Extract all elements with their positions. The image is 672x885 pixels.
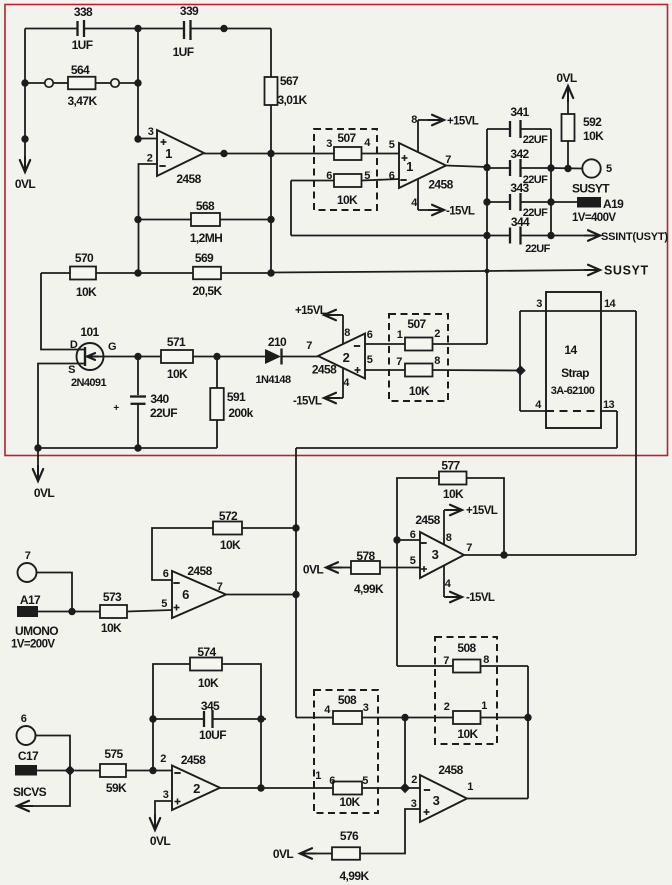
label 59K	[106, 781, 127, 795]
svg-text:571: 571	[167, 335, 186, 349]
svg-text:-15VL: -15VL	[466, 592, 495, 604]
resistor R507b2	[405, 364, 433, 377]
junction strap left	[515, 365, 525, 375]
label SSINT(USYT)	[601, 231, 668, 243]
svg-text:2458: 2458	[438, 763, 463, 777]
junction C17	[65, 765, 75, 775]
svg-text:4,99K: 4,99K	[339, 869, 369, 883]
junction pin3 node	[134, 135, 141, 142]
svg-text:3: 3	[433, 793, 440, 808]
label 570	[75, 251, 94, 265]
label 6 U2	[367, 329, 373, 341]
svg-text:342: 342	[510, 147, 529, 161]
label 101	[80, 325, 99, 339]
svg-text:1: 1	[481, 700, 487, 712]
op-amp U1b triangle	[399, 143, 446, 188]
svg-text:1,2MH: 1,2MH	[190, 231, 222, 245]
svg-text:14: 14	[604, 298, 617, 310]
label SICVS	[13, 785, 47, 799]
wire v271	[270, 154, 272, 274]
label pin 5	[362, 775, 368, 787]
label pin 2	[434, 328, 440, 340]
svg-text:SSINT(USYT): SSINT(USYT)	[601, 231, 668, 243]
svg-text:573: 573	[103, 590, 122, 604]
capacitor C343	[487, 193, 551, 211]
label pin 7	[396, 356, 402, 368]
label 14 strap	[604, 298, 617, 310]
wire U6 pin2 row	[126, 770, 172, 772]
diode D210	[265, 349, 282, 365]
label 340	[150, 392, 169, 406]
connector 6	[17, 726, 36, 745]
svg-text:7: 7	[306, 340, 312, 352]
svg-text:5: 5	[389, 139, 395, 151]
power +15VL U1b	[418, 115, 479, 152]
resistor R569	[193, 267, 221, 280]
svg-text:-15VL: -15VL	[293, 396, 322, 408]
svg-text:0VL: 0VL	[303, 563, 323, 577]
svg-text:564: 564	[71, 63, 90, 77]
junction A17	[68, 608, 75, 615]
svg-text:10K: 10K	[583, 129, 604, 143]
junction 345 left	[149, 715, 156, 722]
svg-text:3: 3	[148, 126, 154, 138]
label + U6	[175, 799, 181, 805]
svg-text:10K: 10K	[101, 621, 122, 635]
svg-text:C17: C17	[18, 749, 39, 763]
svg-text:6: 6	[367, 329, 373, 341]
label 10K	[583, 129, 604, 143]
label 1V=200V	[11, 639, 55, 651]
label 592	[583, 115, 602, 129]
svg-text:1: 1	[467, 781, 473, 793]
junction gate-cap340	[134, 353, 141, 360]
connector 5 SUSYT	[582, 159, 600, 177]
svg-text:1UF: 1UF	[72, 38, 93, 52]
wire strap left v	[519, 311, 521, 411]
net arrow SICVS	[17, 771, 70, 812]
label pin 8	[483, 654, 489, 666]
label pin 4	[324, 704, 331, 716]
junction 569 left	[134, 269, 141, 276]
svg-text:10K: 10K	[443, 487, 464, 501]
svg-text:6: 6	[410, 529, 416, 541]
svg-text:1: 1	[315, 770, 321, 782]
svg-text:1N4148: 1N4148	[256, 374, 291, 386]
junction U4 out	[292, 591, 299, 598]
svg-text:8: 8	[483, 654, 489, 666]
junction left rail A	[21, 79, 28, 86]
resistor R572	[213, 522, 242, 535]
label - U1a	[159, 165, 165, 167]
label 5 U2	[367, 354, 373, 366]
svg-text:D: D	[70, 339, 78, 351]
label 3 inside U5	[433, 793, 440, 808]
strap block body	[546, 292, 601, 428]
label 2458 U1a	[176, 172, 201, 186]
op-amp U6 triangle	[172, 766, 220, 811]
junction gnd rail A	[34, 444, 41, 451]
wire v138	[137, 29, 139, 140]
svg-text:6: 6	[163, 568, 169, 580]
label - U6	[174, 772, 180, 774]
svg-text:8: 8	[446, 532, 452, 544]
label 10K	[339, 795, 360, 809]
svg-text:7: 7	[25, 550, 31, 562]
capacitor C341	[487, 120, 551, 138]
label D	[70, 339, 78, 351]
svg-text:576: 576	[340, 829, 359, 843]
label pin 2	[444, 701, 450, 713]
power 0VL up arrow	[563, 86, 573, 102]
label 20,5K	[192, 284, 222, 298]
svg-text:343: 343	[510, 181, 529, 195]
label SUSYT	[604, 264, 649, 278]
label 22UF	[150, 406, 177, 420]
label 0VL	[303, 563, 323, 577]
svg-text:5: 5	[367, 354, 373, 366]
label 7 U2	[306, 340, 312, 352]
net stub A17	[17, 606, 72, 617]
dashed block 507b	[389, 314, 448, 401]
op-amp U3 triangle	[420, 532, 464, 578]
wire U2 pin6 row	[365, 343, 487, 345]
svg-text:5: 5	[606, 163, 612, 175]
label plus C340	[113, 403, 119, 414]
wire v296 bus	[295, 448, 297, 718]
svg-text:6: 6	[389, 170, 395, 182]
label + U1a	[161, 139, 167, 145]
junction top rail A	[134, 25, 141, 32]
svg-text:10K: 10K	[339, 795, 360, 809]
svg-text:7: 7	[443, 655, 449, 667]
label 2 U5	[411, 774, 417, 786]
label UMONO	[15, 624, 58, 638]
label 3,47K	[67, 94, 97, 108]
capacitor C338	[78, 20, 85, 37]
wire 568 row	[138, 219, 271, 221]
junction 487 c343	[483, 198, 490, 205]
svg-text:SICVS: SICVS	[13, 785, 47, 799]
wire U3 pin6 row	[397, 539, 420, 541]
svg-text:7: 7	[466, 542, 472, 554]
resistor R576	[332, 847, 360, 860]
label 3 strap	[536, 298, 542, 310]
label 1N4148	[256, 374, 291, 386]
label 2458 U5	[438, 763, 463, 777]
op-amp U2 triangle	[318, 334, 365, 379]
label pin 1	[397, 329, 403, 341]
svg-text:577: 577	[441, 459, 460, 473]
junction 568 right	[267, 216, 274, 223]
svg-text:3: 3	[536, 298, 542, 310]
svg-text:+15VL: +15VL	[447, 116, 479, 128]
wire v528	[527, 666, 529, 799]
svg-text:5: 5	[410, 555, 416, 567]
label 2458 U6	[181, 753, 206, 767]
label 6 U4	[163, 568, 169, 580]
svg-text:22UF: 22UF	[525, 243, 550, 255]
junction U3 pin6	[393, 536, 400, 543]
svg-text:1: 1	[406, 159, 413, 174]
wire v405 inv	[404, 718, 406, 789]
junction susyt x487	[485, 269, 490, 274]
net arrow 0VL 576	[300, 848, 316, 858]
op-amp U5 triangle	[420, 775, 467, 822]
label 10K	[337, 193, 358, 207]
junction 487 out	[483, 164, 490, 171]
label 22UF	[525, 243, 550, 255]
wire 578 row	[336, 567, 420, 569]
resistor R568	[191, 213, 220, 226]
svg-text:2458: 2458	[176, 172, 201, 186]
wire R591 drop	[216, 357, 218, 389]
label 343	[510, 181, 529, 195]
net stub A19	[577, 197, 601, 208]
svg-text:1: 1	[165, 146, 172, 161]
svg-text:2458: 2458	[312, 363, 337, 377]
wire 564 row	[25, 82, 138, 84]
svg-text:575: 575	[104, 747, 123, 761]
svg-text:10UF: 10UF	[199, 728, 226, 742]
wire left rail	[24, 29, 26, 161]
label 7 U4	[217, 581, 223, 593]
dashed block 508a	[314, 690, 378, 813]
wire conn7 to node	[37, 573, 73, 612]
svg-text:340: 340	[150, 392, 169, 406]
label 571	[167, 335, 186, 349]
wire R567 drop	[270, 29, 272, 78]
wire gate row	[104, 356, 266, 358]
label - U3	[420, 542, 426, 544]
label 3 U5	[411, 798, 417, 810]
label 8 U3	[446, 532, 452, 544]
label 0VL	[15, 177, 35, 191]
label 4,99K	[354, 582, 384, 596]
label 1 U1b	[406, 159, 413, 174]
label 22UF	[523, 207, 548, 219]
svg-text:1: 1	[397, 329, 403, 341]
connector 7	[18, 563, 37, 582]
label 573	[103, 590, 122, 604]
label + U2	[355, 367, 361, 373]
label SUSYT	[572, 182, 610, 196]
label 10K	[167, 367, 188, 381]
label 2458 U2	[312, 363, 337, 377]
svg-text:2458: 2458	[428, 178, 453, 192]
svg-text:S: S	[68, 364, 75, 376]
capacitor C344	[487, 227, 551, 245]
junction left rail B	[21, 135, 28, 142]
dashed block 507a	[314, 129, 377, 210]
label 577	[441, 459, 460, 473]
label pin 1	[481, 700, 487, 712]
wire U5 out	[467, 798, 528, 800]
label 2 inside U6	[193, 781, 200, 796]
wire SSINT row	[291, 235, 588, 237]
svg-text:10K: 10K	[220, 538, 241, 552]
label 1UF	[72, 38, 93, 52]
svg-text:339: 339	[180, 4, 199, 18]
svg-text:3: 3	[363, 702, 369, 714]
label pin 6	[329, 775, 335, 787]
svg-text:0VL: 0VL	[34, 486, 54, 500]
junction U3 out	[500, 551, 507, 558]
net stub C17	[15, 765, 70, 776]
label 7	[25, 550, 31, 562]
resistor R508b2	[453, 711, 481, 724]
svg-text:591: 591	[227, 390, 246, 404]
svg-text:572: 572	[219, 509, 238, 523]
transistor Q101 drain lead	[78, 349, 85, 351]
svg-text:5: 5	[161, 598, 167, 610]
transistor Q101 body	[77, 343, 104, 370]
terminal ring 564 left	[45, 79, 53, 87]
label 3 inside U3	[432, 547, 439, 562]
label 2N4091	[71, 377, 106, 389]
label 210	[268, 335, 287, 349]
label 575	[104, 747, 123, 761]
label 13 strap	[603, 399, 615, 411]
svg-text:567: 567	[280, 74, 299, 88]
svg-text:-15VL: -15VL	[446, 206, 475, 218]
label 10K	[220, 538, 241, 552]
svg-text:10K: 10K	[198, 676, 219, 690]
label pin 2	[147, 153, 153, 165]
ground 0VL top-left arrow	[20, 156, 30, 172]
resistor R575	[100, 764, 126, 777]
svg-text:338: 338	[74, 5, 93, 19]
junction top rail B	[220, 25, 227, 32]
wire U1b pin6 row	[291, 179, 399, 181]
resistor R578	[351, 561, 380, 574]
label 2458 U3	[415, 513, 440, 527]
wire 574 loop	[153, 664, 261, 788]
wire R591 bottom	[216, 420, 218, 448]
svg-text:2458: 2458	[181, 753, 206, 767]
label 8 U2	[344, 327, 350, 339]
label 345	[201, 699, 220, 713]
junction 551 c342	[547, 164, 554, 171]
svg-text:570: 570	[75, 251, 94, 265]
label 4 U1b	[411, 197, 418, 209]
svg-text:2: 2	[193, 781, 200, 796]
label - U2	[354, 345, 360, 347]
label 578	[356, 549, 375, 563]
label 200k	[228, 406, 253, 420]
svg-text:0VL: 0VL	[150, 834, 170, 848]
label 10K	[76, 285, 97, 299]
svg-text:568: 568	[196, 199, 215, 213]
label + U1b	[402, 155, 408, 161]
net arrow 0VL 578	[326, 562, 342, 572]
label 3A-62100	[551, 385, 595, 397]
wire strap right v	[635, 311, 637, 555]
label 10K	[198, 676, 219, 690]
red highlight frame	[5, 5, 668, 456]
wire A19 row	[551, 201, 577, 203]
label G	[108, 341, 116, 353]
terminal ring 564 right	[111, 79, 119, 87]
svg-text:8: 8	[344, 327, 350, 339]
label 6 U3	[410, 529, 416, 541]
label 574	[197, 645, 216, 659]
svg-text:1V=400V: 1V=400V	[572, 212, 616, 224]
wire U2 pin5 row	[365, 369, 520, 372]
svg-text:8: 8	[411, 114, 417, 126]
label 2458 U1b	[428, 178, 453, 192]
label A19	[603, 197, 624, 211]
svg-text:7: 7	[217, 581, 223, 593]
resistor R508b1	[453, 660, 481, 673]
label 344	[511, 215, 530, 229]
power -15VL U3	[444, 566, 495, 605]
wire U5 pin3 loop	[316, 809, 420, 854]
label 4,99K	[339, 869, 369, 883]
label 4 U3	[445, 578, 452, 590]
wire drain drop	[41, 273, 78, 350]
label 5 U1b	[389, 139, 395, 151]
resistor R571	[161, 350, 193, 363]
wire U4 out	[226, 594, 296, 596]
resistor R567	[265, 77, 278, 105]
ground 0VL arrow bottom-left	[33, 448, 43, 481]
junction 592	[564, 165, 571, 172]
transistor Q101 channel	[84, 347, 86, 366]
svg-text:4,99K: 4,99K	[354, 582, 384, 596]
wire v397 to 508b	[396, 540, 398, 666]
junction 571-591	[213, 353, 220, 360]
label 1 U1a	[165, 146, 172, 161]
label + U3	[421, 566, 427, 572]
label A17	[20, 593, 41, 607]
wire diode to U1b	[282, 356, 318, 358]
svg-text:10K: 10K	[167, 367, 188, 381]
label 10UF	[199, 728, 226, 742]
svg-text:3,47K: 3,47K	[67, 94, 97, 108]
label 10K	[409, 384, 430, 398]
label 10K	[443, 487, 464, 501]
label 3,01K	[277, 93, 307, 107]
op-amp U1a triangle	[157, 130, 204, 176]
svg-text:6: 6	[182, 587, 189, 602]
junction 551 c344	[547, 232, 554, 239]
label 10K	[457, 727, 478, 741]
svg-text:5: 5	[362, 775, 368, 787]
junction 568 left	[134, 216, 141, 223]
label 10K	[101, 621, 122, 635]
svg-text:507: 507	[337, 131, 356, 145]
wire C17 to R575	[75, 770, 100, 772]
transistor Q101 gate	[87, 353, 104, 360]
svg-text:578: 578	[356, 549, 375, 563]
junction 569 right	[267, 269, 274, 276]
junction U5 pin2	[400, 783, 410, 793]
svg-text:2: 2	[160, 753, 166, 765]
svg-text:2: 2	[434, 328, 440, 340]
label - U5	[424, 789, 430, 791]
svg-text:+15VL: +15VL	[466, 505, 498, 517]
wire SUSYT out row	[551, 167, 582, 170]
wire ground rail left	[38, 447, 217, 449]
wire ground rail right	[296, 447, 617, 449]
resistor R507a	[334, 147, 362, 160]
svg-text:101: 101	[80, 325, 99, 339]
net arrow SSINT	[584, 230, 600, 240]
junction U6 out	[257, 784, 264, 791]
label 342	[510, 147, 529, 161]
wire v487 ladder	[486, 129, 488, 344]
